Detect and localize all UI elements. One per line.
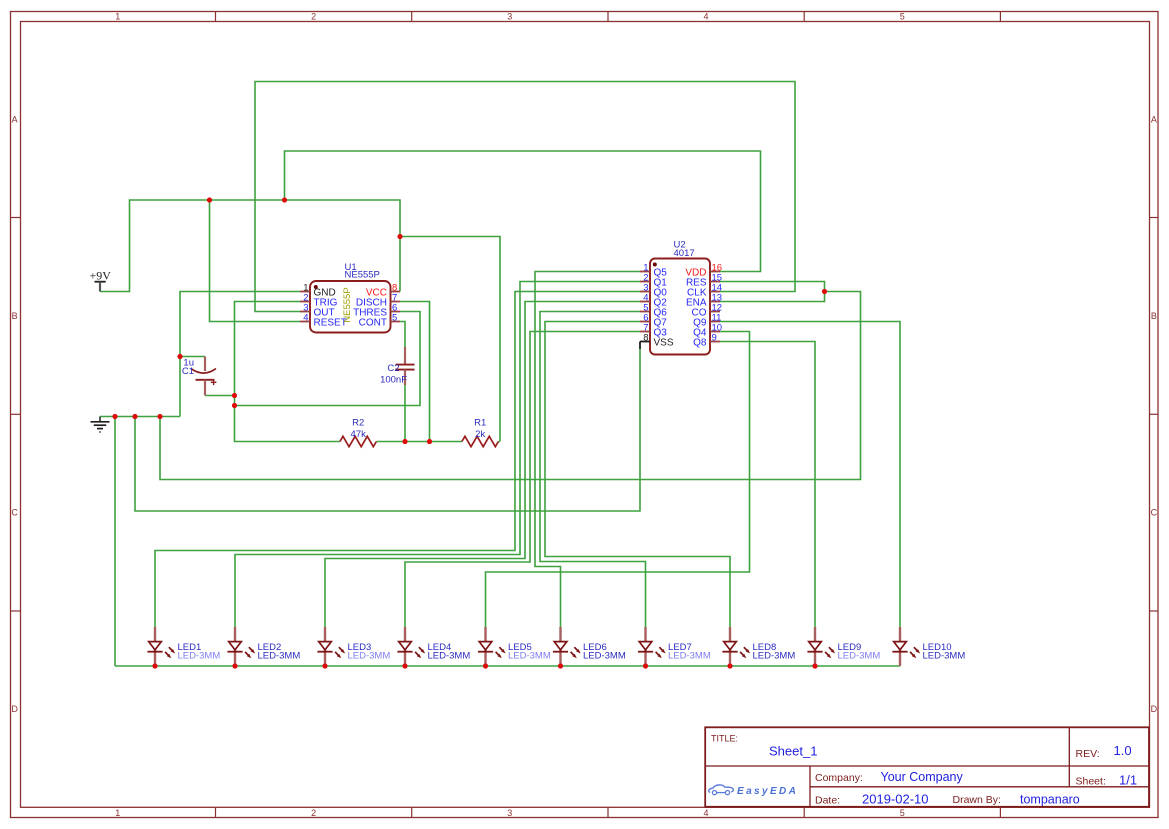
frame column ticks bottom — [215, 807, 217, 817]
svg-text:R1: R1 — [474, 417, 486, 428]
U2 pin 12 CO — [710, 311, 720, 313]
frame row ticks left — [11, 217, 21, 219]
svg-text:3: 3 — [507, 11, 512, 21]
svg-text:2019-02-10: 2019-02-10 — [862, 792, 929, 807]
wire Q8 pin 9 to LED9 — [720, 342, 815, 628]
wire CONT pin 5 to C2 top — [400, 322, 405, 348]
svg-text:D: D — [1151, 704, 1158, 714]
U2 pin 11 Q9 — [710, 321, 720, 323]
LED cathode rail junction dots — [152, 663, 157, 668]
svg-text:EasyEDA: EasyEDA — [737, 786, 798, 797]
svg-text:1: 1 — [115, 808, 120, 818]
wire Q2 pin 4 to LED3 — [325, 302, 640, 628]
frame row ticks right — [1150, 217, 1159, 219]
svg-text:C: C — [11, 508, 18, 518]
U2 pin 15 RES — [710, 281, 720, 283]
capacitor C1 1u (polarized) — [182, 357, 217, 396]
wire TRIG pin 2 down to R2 left lead — [235, 302, 341, 442]
U2 pin 10 Q4 — [710, 331, 720, 333]
U2 pin 6 Q7 — [640, 321, 650, 323]
svg-text:LED-3MM: LED-3MM — [923, 651, 966, 662]
svg-text:47k: 47k — [351, 429, 367, 440]
svg-text:LED-3MM: LED-3MM — [258, 651, 301, 662]
U2 pin 4 Q2 — [640, 301, 650, 303]
title block — [705, 727, 1149, 807]
U1 pin 2 TRIG — [300, 301, 310, 303]
svg-text:Your Company: Your Company — [881, 770, 964, 784]
svg-text:2k: 2k — [475, 429, 485, 440]
svg-text:9: 9 — [712, 332, 717, 343]
svg-text:3: 3 — [507, 808, 512, 818]
wire ground rail down to LED cathode rail — [114, 417, 116, 667]
wire C1 top to GND net — [180, 356, 205, 358]
wire ground to U2 VSS pin 8 — [135, 349, 640, 511]
U2 pin 13 ENA — [710, 301, 720, 303]
svg-text:4017: 4017 — [674, 248, 695, 259]
LED6 LED-3MM — [553, 627, 626, 666]
ground symbol — [91, 417, 110, 433]
svg-text:Sheet:: Sheet: — [1076, 776, 1106, 788]
svg-text:Drawn By:: Drawn By: — [953, 794, 1001, 806]
U1 pin 8 VCC — [391, 291, 401, 293]
wire C2 bottom to R2/R1 junction — [404, 385, 406, 442]
LED5 LED-3MM — [478, 627, 551, 666]
svg-text:REV:: REV: — [1076, 748, 1100, 760]
LED4 LED-3MM — [397, 627, 470, 666]
LED10 LED-3MM — [892, 627, 965, 666]
svg-text:4: 4 — [703, 808, 708, 818]
svg-text:tompanaro: tompanaro — [1020, 793, 1080, 807]
svg-text:2: 2 — [311, 808, 316, 818]
svg-text:1.0: 1.0 — [1114, 743, 1132, 758]
svg-text:A: A — [1151, 114, 1157, 124]
svg-text:Q8: Q8 — [693, 337, 707, 348]
wire U1 GND pin 1 to ground rail — [180, 292, 300, 417]
svg-text:TITLE:: TITLE: — [711, 733, 738, 743]
svg-text:C1: C1 — [182, 366, 194, 377]
U1 pin 3 OUT — [300, 311, 310, 313]
wire Q3 pin 7 to LED4 — [405, 332, 640, 628]
LED2 LED-3MM — [227, 627, 300, 666]
wire ground to U2 RES/ENA junction — [160, 292, 861, 480]
U2 pin 14 CLK — [710, 291, 720, 293]
wire C1 bottom to TRIG net — [205, 395, 235, 397]
svg-text:5: 5 — [392, 312, 397, 323]
U2 pin 7 Q3 — [640, 331, 650, 333]
svg-text:1: 1 — [115, 11, 120, 21]
counter U2 4017 body — [650, 259, 710, 355]
svg-text:2: 2 — [311, 11, 316, 21]
svg-text:LED-3MM: LED-3MM — [838, 651, 881, 662]
wire 9V to RESET pin 4 of U1 — [210, 200, 301, 322]
svg-text:LED-3MM: LED-3MM — [668, 651, 711, 662]
U1 pin-1 marker dot — [314, 285, 318, 289]
svg-text:LED-3MM: LED-3MM — [348, 651, 391, 662]
svg-text:LED-3MM: LED-3MM — [583, 651, 626, 662]
svg-text:CONT: CONT — [359, 317, 387, 328]
junction dots — [207, 197, 212, 202]
U2 pin 2 Q1 — [640, 281, 650, 283]
svg-text:VSS: VSS — [654, 337, 674, 348]
wire LED cathode ground rail — [115, 665, 900, 667]
wire VCC branch to R1 right lead — [400, 237, 500, 442]
svg-text:A: A — [12, 114, 18, 124]
resistor R1 2k — [462, 417, 498, 446]
U2 pin-1 marker dot — [653, 263, 657, 267]
wire U1 OUT pin 3 to U2 CLK pin 14 — [255, 82, 795, 312]
U2 pin 9 Q8 — [710, 341, 720, 343]
wire Q4 pin 10 to LED5 — [486, 332, 750, 628]
wire +9V rail: supply to VCC pin 8 of U1 — [100, 200, 400, 292]
svg-text:B: B — [12, 311, 18, 321]
EasyEDA logo — [709, 785, 799, 797]
U2 pin 3 Q0 — [640, 291, 650, 293]
svg-text:RESET: RESET — [314, 317, 347, 328]
LED7 LED-3MM — [638, 627, 711, 666]
svg-text:C: C — [1151, 508, 1158, 518]
svg-text:D: D — [11, 704, 18, 714]
U2 pin 5 Q6 — [640, 311, 650, 313]
svg-text:LED-3MM: LED-3MM — [753, 651, 796, 662]
svg-text:5: 5 — [900, 11, 905, 21]
wire R2 right to R1 left — [377, 441, 463, 443]
svg-text:+9V: +9V — [90, 269, 112, 283]
wire R1 right lead stub — [499, 441, 501, 443]
U2 pin 1 Q5 — [640, 271, 650, 273]
svg-text:B: B — [1151, 311, 1157, 321]
U1 pin 6 THRES — [391, 311, 401, 313]
svg-text:Date:: Date: — [815, 795, 840, 807]
+9V supply flag — [90, 269, 112, 292]
svg-text:4: 4 — [703, 11, 708, 21]
U2 pin 8 VSS — [640, 341, 650, 343]
capacitor C2 100nF — [380, 347, 414, 386]
wire THRES pin 6 to TRIG node — [235, 312, 421, 406]
wire Q5 pin 1 to LED6 — [535, 272, 640, 628]
svg-text:Company:: Company: — [815, 772, 863, 784]
svg-text:C2: C2 — [387, 363, 399, 374]
LED8 LED-3MM — [722, 627, 795, 666]
wire U2 RES pin 15 to ENA pin 13 — [720, 282, 825, 302]
LED3 LED-3MM — [317, 627, 390, 666]
U1 pin 4 RESET — [300, 321, 310, 323]
U1 pin 5 CONT — [391, 321, 401, 323]
frame column ticks top — [215, 12, 217, 22]
svg-text:4: 4 — [303, 312, 308, 323]
svg-text:100nF: 100nF — [380, 375, 407, 386]
wire Q1 pin 2 to LED2 — [235, 282, 640, 628]
LED1 LED-3MM — [147, 627, 220, 666]
wire Q0 pin 3 to LED1 — [155, 292, 640, 628]
wire Q6 pin 5 to LED7 — [540, 312, 646, 628]
wire Q9 pin 11 to LED10 — [720, 322, 900, 628]
resistor R2 47k — [340, 417, 376, 446]
svg-text:LED-3MM: LED-3MM — [428, 651, 471, 662]
svg-text:5: 5 — [900, 808, 905, 818]
svg-text:R2: R2 — [352, 417, 364, 428]
U1 pin 1 GND — [300, 291, 310, 293]
svg-text:LED-3MM: LED-3MM — [178, 651, 221, 662]
U2 pin 16 VDD — [710, 271, 720, 273]
svg-text:8: 8 — [643, 332, 648, 343]
wire DISCH pin 7 down to R2/R1 junction — [400, 302, 430, 442]
svg-text:1/1: 1/1 — [1119, 772, 1137, 787]
U1 pin 7 DISCH — [391, 301, 401, 303]
op-amp/timer U1 NE555P body — [310, 281, 391, 333]
svg-text:NE555P: NE555P — [345, 270, 380, 281]
wire 9V to VDD pin 16 of U2 — [285, 151, 761, 272]
wire Q7 pin 6 to LED8 — [545, 322, 730, 628]
svg-text:Sheet_1: Sheet_1 — [769, 744, 817, 759]
svg-text:LED-3MM: LED-3MM — [508, 651, 551, 662]
wire ground rail top — [100, 416, 180, 418]
LED9 LED-3MM — [807, 627, 880, 666]
